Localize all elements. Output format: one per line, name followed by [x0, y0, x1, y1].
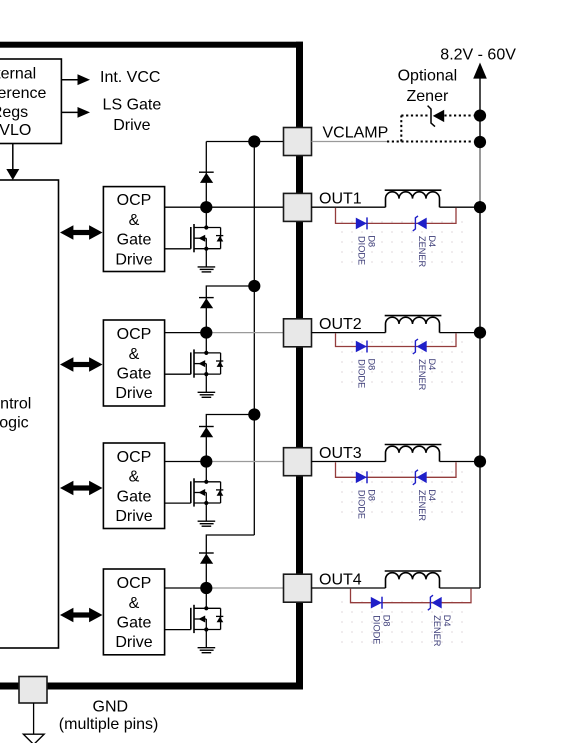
wire OUT4 external: [312, 587, 386, 589]
inductor load ch3: [385, 445, 442, 462]
node drain ch2: [200, 327, 212, 339]
svg-text:Int. VCC: Int. VCC: [100, 69, 160, 86]
wire optional zener loop dashed: [400, 116, 402, 142]
node drain ch4: [200, 582, 212, 594]
ground ch2: [198, 392, 216, 397]
wire VCLAMP vertical bus: [253, 142, 255, 536]
svg-text:Drive: Drive: [115, 251, 152, 268]
svg-text:D8: D8: [367, 235, 377, 247]
svg-text:Drive: Drive: [113, 117, 150, 134]
inductor load ch1: [385, 190, 442, 207]
svg-text:(multiple pins): (multiple pins): [59, 716, 159, 733]
wire drain ch4: [165, 587, 213, 589]
pin OUT2: [284, 319, 312, 347]
svg-text:D8: D8: [367, 359, 377, 371]
svg-text:ZENER: ZENER: [417, 490, 427, 522]
wire GND: [33, 703, 35, 734]
clamp diode ch3: [199, 427, 214, 438]
node rail-out3: [474, 455, 486, 467]
svg-text:OCP: OCP: [117, 192, 152, 209]
svg-text:&: &: [129, 212, 140, 229]
svg-text:DIODE: DIODE: [372, 615, 382, 644]
svg-text:ZENER: ZENER: [417, 359, 427, 391]
svg-text:Internal: Internal: [0, 65, 36, 82]
svg-text:LS Gate: LS Gate: [103, 97, 162, 114]
svg-text:VCLAMP: VCLAMP: [323, 125, 389, 142]
label D4 ZENER ch4: [432, 615, 452, 647]
label D8 DIODE ch3: [357, 489, 377, 519]
transistor M1 (low-side NMOS): [191, 207, 224, 267]
arrow to Int. VCC: [61, 74, 90, 85]
decorative grid (not labelled component): [337, 213, 471, 264]
svg-text:Drive: Drive: [115, 508, 152, 525]
wire drain ch3: [165, 461, 213, 463]
svg-text:Control: Control: [0, 396, 31, 413]
decorative grid (not labelled component): [337, 594, 471, 645]
wire VCLAMP external solid: [312, 141, 388, 143]
svg-text:8.2V - 60V: 8.2V - 60V: [440, 47, 516, 64]
svg-text:Gate: Gate: [117, 614, 152, 631]
node rail-vclamp: [474, 136, 486, 148]
zener D4 ch3: [413, 470, 427, 485]
svg-text:OUT3: OUT3: [319, 445, 362, 462]
svg-text:D4: D4: [427, 489, 437, 501]
block: Internal Reference Regs UVLO: [0, 59, 61, 144]
decorative grid (not labelled component): [337, 468, 471, 519]
bidirectional arrow ch4: [60, 608, 103, 622]
IC package border: [0, 42, 303, 48]
svg-text:&: &: [129, 469, 140, 486]
node bus junction ch3: [248, 408, 260, 420]
OCP & Gate Drive block ch4: [103, 569, 164, 655]
svg-text:Optional: Optional: [398, 68, 458, 85]
clamp diode ch2: [199, 298, 214, 309]
optional zener diode: [428, 106, 445, 127]
svg-text:Drive: Drive: [115, 385, 152, 402]
zener D4 ch2: [413, 339, 427, 354]
ground ch4: [198, 648, 216, 653]
node bus junction ch2: [248, 280, 260, 292]
svg-text:Regs: Regs: [0, 104, 28, 121]
wire OUT2 external: [312, 332, 386, 334]
diode D8 ch3: [356, 471, 367, 483]
OCP & Gate Drive block ch1: [103, 187, 164, 272]
supply rail: [479, 76, 481, 588]
load snubber loop ch1: [336, 208, 457, 224]
svg-text:ZENER: ZENER: [432, 615, 442, 647]
label D8 DIODE ch1: [357, 235, 377, 265]
svg-text:Reference: Reference: [0, 85, 47, 102]
wire OUT3 external: [312, 461, 386, 463]
decorative grid (not labelled component): [337, 339, 471, 390]
svg-text:OUT2: OUT2: [319, 316, 362, 333]
svg-text:Drive: Drive: [115, 634, 152, 651]
svg-text:Gate: Gate: [117, 366, 152, 383]
label D8 DIODE ch2: [357, 359, 377, 389]
wire gate ch2: [165, 373, 191, 375]
node VCLAMP bus junction: [248, 135, 260, 147]
svg-text:OCP: OCP: [117, 326, 152, 343]
node rail-zener: [474, 110, 486, 122]
svg-text:DIODE: DIODE: [357, 490, 367, 519]
svg-text:OCP: OCP: [117, 575, 152, 592]
bidirectional arrow ch2: [60, 357, 103, 371]
load snubber loop ch2: [336, 333, 457, 346]
svg-text:ZENER: ZENER: [417, 236, 427, 268]
diode D8 ch2: [356, 341, 367, 353]
pin GND: [19, 677, 47, 704]
svg-text:DIODE: DIODE: [357, 236, 367, 265]
diode D8 ch4: [371, 597, 382, 609]
wire OUT1 external: [312, 206, 386, 208]
wire VCLAMP external dashed: [387, 141, 474, 143]
svg-text:DIODE: DIODE: [357, 359, 367, 388]
wire clamp ch4: [206, 535, 254, 588]
label D8 DIODE ch4: [372, 615, 392, 645]
supply arrow: [473, 63, 487, 79]
ground symbol external: [23, 734, 44, 743]
node drain ch3: [200, 455, 212, 467]
svg-text:&: &: [129, 346, 140, 363]
bidirectional arrow ch1: [60, 225, 103, 239]
svg-text:Logic: Logic: [0, 415, 29, 432]
svg-text:&: &: [129, 595, 140, 612]
node rail-out2: [474, 327, 486, 339]
pin VCLAMP: [284, 128, 312, 156]
label D4 ZENER ch1: [417, 235, 437, 267]
svg-text:OUT4: OUT4: [319, 571, 362, 588]
wire gate ch4: [165, 629, 191, 631]
pin OUT4: [284, 574, 312, 602]
diode D8 ch1: [356, 217, 367, 229]
svg-text:Gate: Gate: [117, 232, 152, 249]
wire VCLAMP internal: [206, 141, 283, 143]
svg-text:D4: D4: [427, 359, 437, 371]
svg-text:OCP: OCP: [117, 449, 152, 466]
clamp diode ch1: [199, 172, 214, 183]
ground ch3: [198, 521, 216, 526]
node rail-out1: [474, 201, 486, 213]
block: Control Logic: [0, 180, 59, 648]
label D4 ZENER ch2: [417, 359, 437, 391]
wire drain ch1: [165, 206, 284, 208]
transistor M2 (low-side NMOS): [191, 333, 224, 393]
arrow reference-to-control: [6, 144, 19, 181]
transistor M3 (low-side NMOS): [191, 462, 224, 522]
svg-text:Gate: Gate: [117, 488, 152, 505]
wire gate ch1: [165, 248, 191, 250]
label D4 ZENER ch3: [417, 489, 437, 521]
node drain ch1: [200, 201, 212, 213]
pin OUT1: [284, 193, 312, 221]
load snubber loop ch4: [351, 589, 472, 603]
inductor load ch4: [385, 571, 442, 588]
pin OUT3: [284, 448, 312, 476]
svg-text:D8: D8: [367, 489, 377, 501]
clamp diode ch4: [199, 553, 214, 564]
bidirectional arrow ch3: [60, 481, 103, 495]
ground ch1: [198, 267, 216, 272]
wire clamp ch1: [205, 142, 207, 208]
OCP & Gate Drive block ch2: [103, 320, 164, 406]
svg-text:D8: D8: [382, 615, 392, 627]
svg-text:OUT1: OUT1: [319, 191, 362, 208]
transistor M4 (low-side NMOS): [191, 588, 224, 648]
load snubber loop ch3: [336, 462, 457, 477]
svg-text:GND: GND: [93, 699, 129, 716]
svg-text:UVLO: UVLO: [0, 122, 31, 139]
zener D4 ch4: [428, 595, 442, 610]
svg-text:D4: D4: [427, 235, 437, 247]
inductor load ch2: [385, 316, 442, 333]
arrow to LS Gate Drive: [61, 107, 90, 118]
wire clamp ch3: [206, 415, 254, 462]
wire gate ch3: [165, 502, 191, 504]
svg-text:D4: D4: [442, 615, 452, 627]
wire drain ch2: [165, 332, 213, 334]
zener D4 ch1: [413, 216, 427, 231]
svg-text:Zener: Zener: [407, 88, 449, 105]
wire clamp ch2: [206, 286, 254, 333]
OCP & Gate Drive block ch3: [103, 443, 164, 529]
